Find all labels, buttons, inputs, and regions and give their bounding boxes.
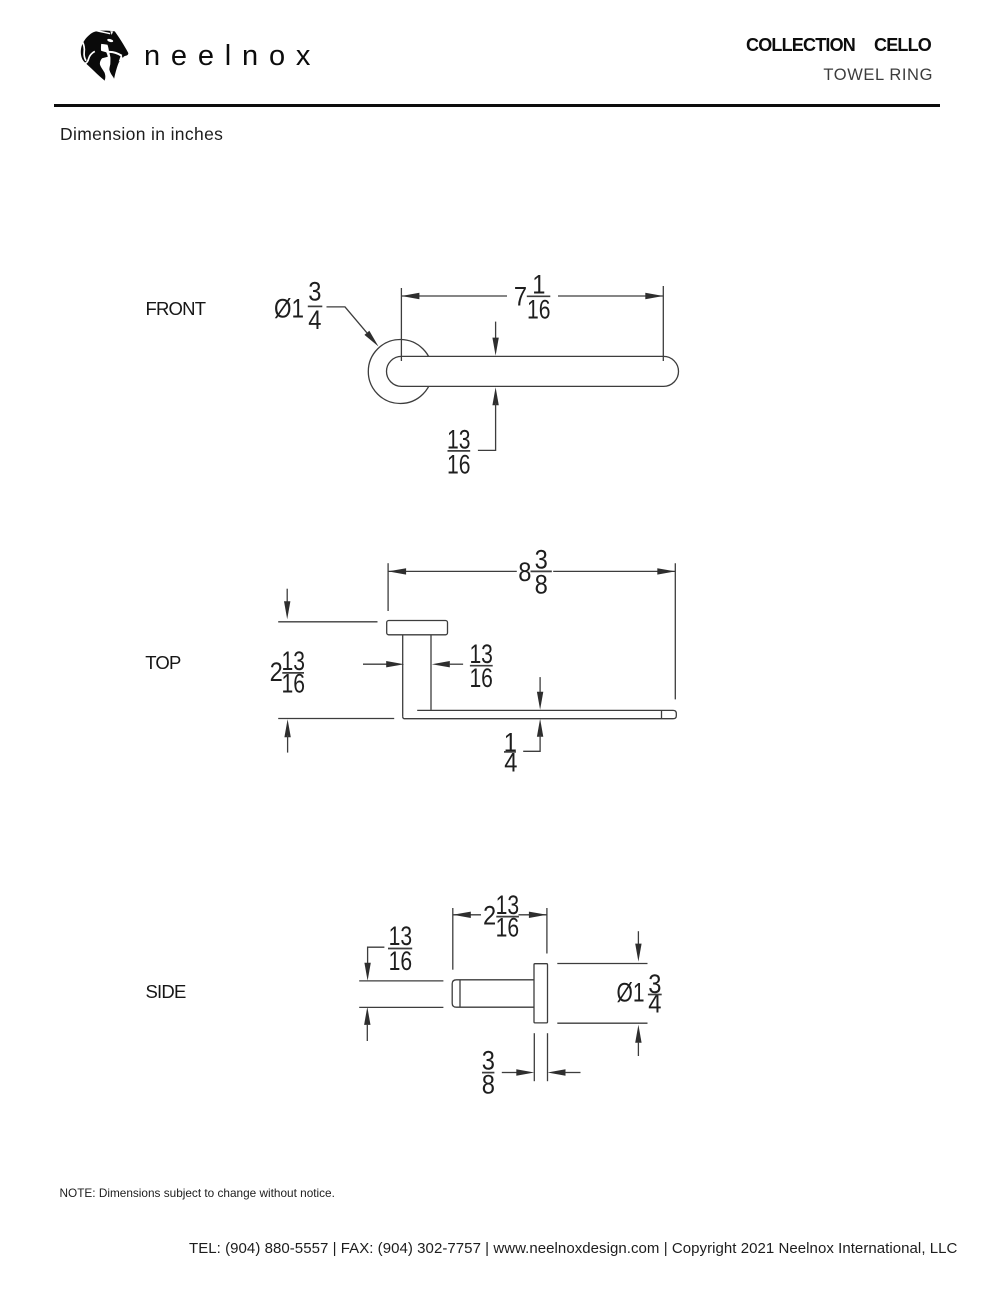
dim 1/4 top lower stem and jog — [523, 735, 540, 751]
dim 13/16 side fraction bar — [388, 948, 412, 950]
dim 13/16 top left arrow — [386, 661, 404, 667]
dim 13/16 side text — [389, 921, 413, 976]
dia 1 3/4 side lower stem — [637, 1042, 639, 1056]
dim 13/16 front upper arrow stem — [495, 322, 497, 340]
dim 3/8 right arrow — [548, 1069, 566, 1075]
dim 2 13/16 top upper extension line — [278, 621, 377, 623]
dim 13/16 top right stem — [449, 663, 463, 665]
dim 8 3/8 right arrow — [657, 568, 675, 574]
dim 8 3/8 left arrow — [388, 568, 406, 574]
dim 7 1/16 right arrow — [645, 293, 663, 299]
dim 2 13/16 side fraction bar — [496, 916, 519, 918]
dim 2 13/16 top fraction bar — [282, 672, 304, 674]
dim 7 1/16 left extension line — [400, 288, 402, 361]
dim 1/4 top lower arrow — [537, 719, 543, 737]
dimension note — [60, 124, 223, 145]
dia 1 3/4 side top extension line — [557, 963, 647, 965]
white eye — [107, 38, 114, 43]
dim 1/4 top fraction bar — [504, 751, 516, 753]
dim 8 3/8 right extension line — [674, 563, 676, 699]
white jaw slit — [109, 52, 122, 56]
dim 13/16 front lower arrow — [492, 387, 498, 405]
svg-text:2: 2 — [483, 901, 496, 931]
footer contact line — [189, 1240, 957, 1257]
side post bottom extension line — [359, 1006, 443, 1008]
svg-text:16: 16 — [469, 663, 493, 693]
dim 3/8 left arrow — [516, 1069, 534, 1075]
dia 1 3/4 leader arrow — [364, 331, 378, 347]
dia 1 3/4 leader line — [327, 307, 367, 333]
svg-text:Ø1: Ø1 — [617, 978, 645, 1008]
neelnox wordmark — [144, 40, 321, 73]
top view wall plate — [387, 621, 448, 635]
dia 1 3/4 side upper stem — [637, 931, 639, 944]
white ear notch — [110, 31, 113, 35]
svg-text:16: 16 — [527, 295, 551, 325]
dim 3/8 fraction bar — [482, 1072, 494, 1074]
dim 7 1/16 text — [514, 269, 551, 324]
svg-text:16: 16 — [389, 946, 413, 976]
dim 2 13/16 side text — [483, 890, 519, 943]
header divider rule — [54, 104, 940, 107]
svg-text:3: 3 — [308, 277, 321, 307]
svg-text:SIDE: SIDE — [146, 981, 186, 1002]
side post top extension line — [359, 980, 443, 982]
svg-text:8: 8 — [482, 1070, 495, 1100]
dim 3/8 left extension line — [533, 1033, 535, 1081]
dim 2 13/16 top lower stem — [287, 735, 289, 753]
dim 7 1/16 right extension line — [662, 286, 664, 361]
dia 1 3/4 side upper arrow — [635, 944, 641, 962]
dim 13/16 top left stem — [363, 663, 387, 665]
dim 2 13/16 top upper stem — [286, 589, 288, 604]
dim 7 1/16 fraction bar — [527, 295, 551, 297]
dim 2 13/16 side right extension line — [546, 908, 548, 954]
dim 1/4 top text — [504, 728, 518, 778]
white under-jaw sweep — [100, 44, 114, 82]
dim 3/8 left stem — [502, 1072, 517, 1074]
top view post right edge — [430, 635, 432, 710]
dia 1 3/4 label text — [274, 277, 322, 336]
dim 2 13/16 top lower extension line — [278, 718, 394, 720]
dim 2 13/16 top text — [270, 646, 305, 698]
dim 13/16 side lower arrow — [364, 1007, 370, 1025]
svg-text:FRONT: FRONT — [146, 298, 206, 319]
dim 3/8 right extension line — [547, 1033, 549, 1081]
collection title — [746, 35, 931, 56]
neelnox horse head logo — [78, 29, 130, 82]
dia 1 3/4 side fraction bar — [648, 994, 662, 996]
note line — [60, 1186, 335, 1200]
svg-text:7: 7 — [514, 282, 527, 312]
white mouth notch — [119, 55, 124, 62]
dia 1 3/4 fraction bar — [308, 305, 323, 307]
svg-text:4: 4 — [308, 305, 321, 335]
dim 1/4 top upper stem — [539, 677, 541, 692]
dia 1 3/4 side lower arrow — [635, 1025, 641, 1043]
white mane slit lower — [85, 51, 95, 63]
dim 13/16 front upper arrow — [492, 338, 498, 356]
dim 13/16 front text — [447, 425, 471, 480]
side view post — [452, 980, 534, 1007]
front flange circle — [368, 340, 432, 404]
dim 13/16 front fraction bar — [448, 450, 471, 452]
dim 2 13/16 side right arrow — [529, 912, 547, 918]
dim 2 13/16 side left extension line — [452, 908, 454, 970]
dim 8 3/8 dimension line — [388, 570, 675, 572]
svg-text:TOP: TOP — [145, 652, 181, 673]
dia 1 3/4 side text — [617, 969, 662, 1018]
svg-text:8: 8 — [535, 570, 548, 600]
dim 13/16 front lower stem and jog — [478, 403, 496, 450]
dim 2 13/16 top lower arrow — [284, 719, 290, 737]
dim 13/16 side jog and stem — [368, 947, 385, 963]
product subtitle — [823, 66, 933, 85]
svg-text:4: 4 — [648, 988, 661, 1018]
dim 7 1/16 left arrow — [401, 293, 419, 299]
dim 13/16 top text — [469, 639, 493, 693]
dim 8 3/8 fraction bar — [531, 570, 552, 572]
svg-text:8: 8 — [518, 557, 531, 587]
white mane slit left — [82, 42, 86, 61]
dim 2 13/16 top upper arrow — [284, 601, 290, 619]
dim 8 3/8 text — [518, 544, 547, 599]
top view post left edge — [402, 635, 404, 717]
side view post cap tick — [459, 980, 461, 1007]
dim 2 13/16 side left arrow — [453, 912, 471, 918]
front bar capsule — [387, 356, 679, 386]
svg-text:Ø1: Ø1 — [274, 294, 304, 324]
dim 7 1/16 dimension line — [401, 295, 663, 297]
dim 1/4 top upper arrow — [537, 692, 543, 710]
dim 13/16 top fraction bar — [470, 665, 493, 667]
dim 3/8 text — [482, 1046, 495, 1100]
dim 8 3/8 left extension line — [387, 563, 389, 611]
dim 3/8 right stem — [565, 1072, 581, 1074]
top view bar tangent tick — [661, 710, 663, 719]
dim 13/16 top right arrow — [432, 661, 450, 667]
side view flange — [534, 964, 548, 1023]
dia 1 3/4 side bottom extension line — [557, 1022, 647, 1024]
white forelock slit — [96, 30, 110, 33]
dim 13/16 side lower stem — [366, 1024, 368, 1041]
dim 13/16 side upper arrow — [364, 963, 370, 981]
top view bar outline — [403, 710, 677, 718]
svg-text:16: 16 — [447, 450, 471, 480]
dim 2 13/16 side dimension line — [453, 914, 547, 916]
